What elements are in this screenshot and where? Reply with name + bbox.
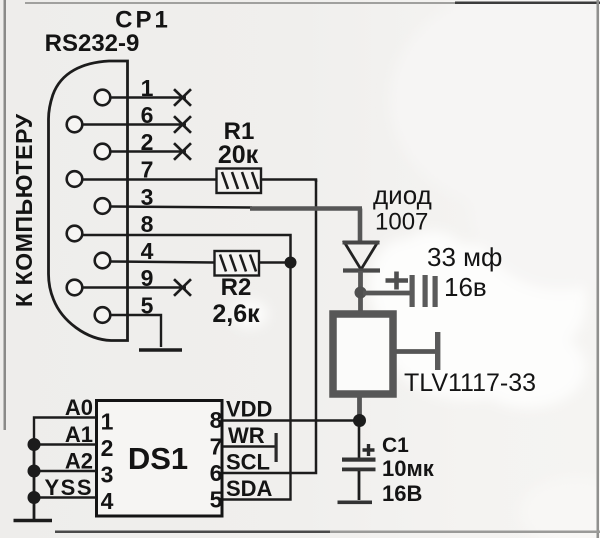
svg-text:SDA: SDA [226, 476, 273, 501]
wire pin3 thick marker part to diode [250, 206, 362, 211]
IC DS1 box [97, 401, 223, 517]
ground bar (DS1 address pins) [14, 519, 53, 522]
pin 2 circle [95, 144, 111, 160]
wire pin5 to ground [111, 315, 162, 347]
wire YSS (pin4) [34, 496, 96, 498]
svg-text:8: 8 [210, 407, 223, 433]
svg-text:2: 2 [101, 435, 114, 461]
capacitor C1: wire from node down [358, 421, 361, 458]
TLV output terminal bar [435, 332, 440, 370]
svg-text:WR: WR [228, 423, 265, 448]
svg-text:C1: C1 [382, 434, 409, 457]
svg-text:A2: A2 [65, 449, 93, 474]
svg-text:YSS: YSS [44, 475, 93, 500]
capacitor 33мф plate 2 [423, 275, 428, 307]
frame left line [4, 0, 7, 430]
svg-text:1: 1 [101, 409, 114, 435]
node junction A2 [28, 465, 41, 478]
pin 8 circle [67, 226, 83, 242]
svg-text:8: 8 [141, 211, 154, 237]
svg-text:A1: A1 [65, 422, 93, 447]
wire A1 (pin2) [34, 443, 96, 445]
node junction below diode [355, 287, 367, 299]
capacitor 33мф plate 1 [410, 275, 415, 307]
wire R2 right to junction [259, 261, 291, 264]
no-connect X pin6 [174, 116, 191, 133]
pin 3 circle [95, 198, 111, 214]
bus wire R1/SCL vertical [223, 180, 316, 474]
wire diode anode lead [358, 209, 363, 244]
svg-text:VDD: VDD [226, 397, 272, 422]
capacitor 33мф terminal bar [433, 276, 438, 307]
wire pin6 to X [83, 123, 187, 126]
no-connect X pin9 [174, 279, 191, 296]
wire pin3 thin part [111, 207, 253, 208]
wire R1 right to bus corner [261, 180, 316, 183]
svg-text:3: 3 [101, 462, 114, 488]
wire TLV output right [396, 349, 436, 354]
diode cathode bar [343, 268, 380, 272]
node junction TLV output / VDD [353, 414, 366, 427]
pin 7 circle [67, 171, 83, 187]
pin 6 circle [67, 117, 83, 133]
wire pin9 to X [83, 286, 187, 289]
svg-text:6: 6 [210, 460, 223, 486]
svg-text:7: 7 [210, 434, 223, 460]
frame bottom line [55, 531, 335, 534]
node junction A1 [28, 438, 41, 451]
wire pin4 to R2 [111, 262, 215, 263]
svg-text:DS1: DS1 [128, 441, 188, 476]
wire pin1 to X [111, 96, 187, 99]
ground bar (CP1 pin5) [139, 348, 182, 352]
wire VDD pin8 to node [223, 419, 359, 421]
diode 1007 triangle [345, 243, 378, 270]
node junction R2 / pin8 bus [285, 257, 297, 269]
svg-text:4: 4 [141, 238, 154, 264]
svg-text:5: 5 [210, 487, 223, 513]
wire pin7 to R1 [83, 178, 217, 181]
WR terminal bar [275, 433, 278, 462]
no-connect X pin2 [174, 143, 191, 160]
ground bus left of DS1 [33, 444, 36, 519]
frame top line [25, 2, 460, 4]
capacitor C1 plate 2 [342, 468, 376, 472]
node junction YSS [28, 491, 41, 504]
svg-text:RS232-9: RS232-9 [45, 30, 140, 57]
wire node to capacitor 33мф [363, 291, 410, 296]
regulator U1 TLV1117-33 box [333, 314, 393, 394]
svg-text:16В: 16В [382, 481, 422, 506]
svg-text:2,6к: 2,6к [212, 300, 260, 328]
capacitor C1 plate 1 [342, 458, 376, 462]
svg-text:диод: диод [373, 180, 432, 210]
wire pin8 to bus corner [83, 235, 291, 257]
svg-text:1007: 1007 [375, 209, 428, 236]
connector CP1 shell [49, 61, 128, 341]
frame right line [597, 0, 600, 538]
pin 9 circle [67, 280, 83, 296]
wire A2 (pin3) [34, 470, 96, 472]
pin 1 circle [95, 90, 111, 106]
wire WR pin7 stub [223, 445, 275, 448]
svg-text:10мк: 10мк [382, 456, 435, 481]
wire pin2 to X [111, 150, 187, 153]
wire TLV bottom lead [357, 397, 362, 420]
svg-text:К КОМПЬЮТЕРУ: К КОМПЬЮТЕРУ [11, 113, 37, 307]
C1 bottom terminal bar [338, 501, 373, 505]
resistor R1 [217, 169, 262, 194]
svg-text:A0: A0 [65, 395, 93, 420]
svg-text:R2: R2 [221, 274, 252, 301]
svg-text:TLV1117-33: TLV1117-33 [404, 369, 536, 397]
pin 4 circle [95, 253, 111, 269]
svg-text:4: 4 [101, 488, 114, 514]
svg-text:16в: 16в [444, 272, 487, 302]
no-connect X pin1 [174, 89, 191, 106]
wire A0 (pin1) [34, 418, 96, 445]
pin 5 circle [95, 307, 111, 323]
plus sign C1 [363, 444, 375, 456]
wire C1 bottom lead [358, 471, 361, 500]
bus wire junction down to SDA [223, 263, 291, 500]
plus sign of 33мф cap [386, 272, 409, 290]
wire diode to node [358, 271, 363, 311]
svg-text:SCL: SCL [226, 450, 270, 475]
svg-text:20к: 20к [218, 141, 259, 169]
resistor R2 [215, 251, 260, 276]
svg-text:33 мф: 33 мф [427, 242, 502, 272]
